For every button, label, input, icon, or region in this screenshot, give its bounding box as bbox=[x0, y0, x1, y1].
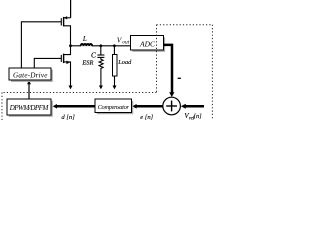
wire top gate from Gate-Drive bbox=[21, 22, 61, 68]
arrowhead into Gate-Drive bbox=[27, 80, 31, 84]
Compensator block bbox=[95, 99, 131, 112]
wire DPWM to Gate-Drive bbox=[28, 84, 30, 99]
node A (switch node junction) bbox=[69, 44, 72, 47]
svg-text:C: C bbox=[91, 51, 96, 60]
ADC block U1 bbox=[131, 36, 164, 51]
node load branch bbox=[113, 44, 116, 47]
transistor Q2 (NMOS, low side) bbox=[61, 46, 70, 86]
svg-text:out: out bbox=[122, 40, 129, 46]
svg-text:ADC: ADC bbox=[139, 40, 156, 49]
wire switch node to inductor bbox=[71, 45, 82, 47]
dotted digital-region boundary: top edge bbox=[157, 24, 213, 26]
svg-text:ESR: ESR bbox=[81, 60, 93, 67]
wire cap branch bbox=[100, 46, 102, 55]
arrowhead into summer (right) bbox=[181, 104, 186, 109]
dotted boundary: upper left edge through ADC bbox=[156, 25, 158, 93]
svg-text:DPWM/DPFM: DPWM/DPFM bbox=[9, 104, 50, 112]
summer (summing junction) bbox=[163, 97, 181, 115]
DPWM/DPFM box shadow bbox=[9, 101, 53, 117]
label minus bbox=[178, 77, 181, 79]
Gate-Drive box shadow bbox=[11, 70, 53, 82]
wire compensator to DPWM d[n] (thick) bbox=[57, 105, 95, 108]
wire Vg lead (top rail to PMOS source) bbox=[70, 0, 72, 18]
transistor Q1 (PMOS, high side) bbox=[61, 16, 70, 46]
node capacitor branch bbox=[99, 44, 102, 47]
wire ESR to ground arrow bbox=[100, 71, 102, 86]
capacitor C bbox=[97, 55, 104, 57]
svg-text:e [n]: e [n] bbox=[140, 114, 153, 120]
arrowhead into DPWM bbox=[53, 104, 57, 109]
svg-text:Gate-Drive: Gate-Drive bbox=[13, 72, 48, 80]
Gate-Drive block bbox=[9, 68, 51, 80]
wire summer to compensator e[n] (thick) bbox=[136, 105, 163, 108]
dotted boundary: middle horizontal edge bbox=[2, 92, 157, 94]
ADC block shadow bbox=[132, 37, 165, 52]
ground arrow below ESR bbox=[99, 86, 103, 90]
wire bottom gate from Gate-Drive bbox=[34, 58, 61, 67]
wire ADC output (thick digital bus) bbox=[163, 45, 172, 93]
svg-text:[n]: [n] bbox=[194, 113, 203, 120]
dotted boundary: right edge bbox=[211, 25, 213, 120]
dotted boundary: lower left edge bbox=[1, 93, 3, 121]
svg-text:Compensator: Compensator bbox=[98, 104, 130, 111]
svg-text:d [n]: d [n] bbox=[61, 114, 75, 120]
wire load to ground arrow bbox=[114, 76, 116, 86]
arrowhead into summer (top) bbox=[169, 92, 174, 97]
inductor L bbox=[81, 44, 93, 46]
wire load branch bbox=[113, 46, 115, 55]
svg-text:Load: Load bbox=[117, 59, 132, 66]
svg-text:L: L bbox=[82, 35, 87, 43]
wire Vref input (thick) bbox=[185, 105, 204, 108]
resistor Load (box) bbox=[113, 55, 117, 76]
DPWM/DPFM block bbox=[7, 99, 51, 115]
Compensator box shadow bbox=[97, 101, 133, 114]
wire inductor to ADC (Vout rail) bbox=[92, 45, 131, 47]
ground arrow below Q2 bbox=[69, 86, 73, 90]
ground arrow below Load bbox=[113, 86, 117, 90]
arrowhead into compensator bbox=[132, 104, 136, 109]
resistor ESR (zigzag) bbox=[99, 57, 103, 70]
